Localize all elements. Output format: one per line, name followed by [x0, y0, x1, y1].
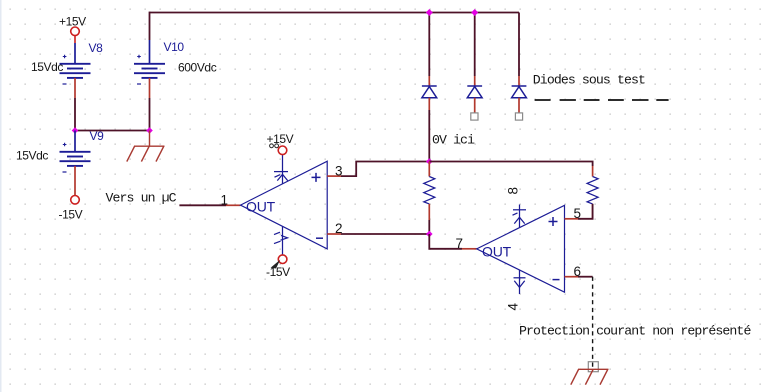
pin - of V10	[149, 78, 151, 98]
wire V10 minus to node B	[149, 98, 151, 131]
junction node A (75,130.5)	[72, 127, 79, 134]
plus mark of V10	[137, 55, 141, 59]
pin 6 stub of U2	[565, 276, 579, 278]
svg-text:6: 6	[574, 264, 582, 279]
svg-text:15Vdc: 15Vdc	[31, 60, 63, 74]
wire pin 5 to R2 bottom	[578, 204, 593, 219]
op-amp U1 V- power pin	[274, 226, 288, 255]
svg-text:OUT: OUT	[482, 244, 512, 260]
pin - of V8	[74, 78, 76, 98]
plates of V10	[134, 63, 165, 65]
plates of V8	[60, 63, 91, 65]
battery V8	[31, 41, 103, 98]
resistor R2	[587, 166, 598, 219]
wire pin 3 to node E	[341, 162, 429, 177]
power symbol +15V (at U1)	[267, 132, 294, 155]
op-amp U2 V+ power pin 8	[513, 205, 527, 228]
wire node F to pin 7 of U2	[429, 234, 462, 249]
junction node B (149.5,130.5)	[146, 127, 153, 134]
pin 2 stub of U1	[327, 233, 341, 235]
pin - of V9	[74, 166, 76, 196]
pin 5 stub of U2	[565, 218, 579, 220]
wire top bus to diode D1	[428, 13, 430, 77]
wire node A to node B horizontal	[75, 130, 150, 132]
power symbol -15V (bottom left)	[59, 196, 83, 222]
svg-text:600Vdc: 600Vdc	[178, 61, 217, 75]
minus input mark of U1	[316, 237, 323, 239]
pin 3 stub of U1	[327, 175, 341, 177]
power symbol +15V (top left)	[59, 15, 86, 43]
wire R1 bottom to node F	[428, 220, 430, 234]
svg-text:OUT: OUT	[246, 199, 276, 215]
pin 1 stub of U1	[226, 204, 241, 206]
svg-text:V8: V8	[89, 41, 104, 55]
pin + of V10	[149, 40, 151, 64]
wire pin 6 corner	[578, 276, 593, 278]
plus mark of V9	[63, 143, 67, 147]
svg-text:+15V: +15V	[59, 15, 86, 29]
diode D3 (cathode up)	[512, 76, 527, 113]
svg-text:-15V: -15V	[266, 265, 290, 279]
svg-text:15Vdc: 15Vdc	[16, 149, 48, 163]
junction node D (474.7,12.5)	[471, 9, 478, 16]
svg-text:7: 7	[456, 236, 464, 251]
svg-text:0V ici: 0V ici	[432, 133, 475, 148]
svg-text:V10: V10	[164, 40, 185, 54]
pin 7 stub of U2	[462, 248, 477, 250]
dashed separator line under Diodes sous test	[535, 99, 669, 101]
junction node C (429,12.5)	[426, 9, 433, 16]
battery V9	[16, 129, 104, 196]
svg-text:4: 4	[506, 303, 521, 311]
svg-text:8: 8	[506, 187, 521, 195]
minus mark of V10	[137, 83, 141, 85]
op-amp U1 (output on left apex)	[241, 161, 328, 249]
battery V10	[134, 40, 217, 98]
svg-text:Diodes sous test: Diodes sous test	[533, 73, 645, 88]
minus mark of V9	[63, 171, 67, 173]
wire D1 anode to node E	[428, 110, 430, 162]
unconnected pin square at D2 anode	[471, 113, 478, 120]
junction node E (429,161.5)	[426, 158, 433, 165]
diode D1 (cathode up)	[422, 76, 437, 110]
svg-text:Protection courant non représe: Protection courant non représenté	[519, 324, 751, 339]
plus input mark of U2	[549, 217, 558, 226]
pin + of V9	[74, 131, 76, 152]
minus mark of V8	[63, 83, 67, 85]
wire top bus (V10 plus terminal to diodes D1 D2 D3)	[150, 12, 520, 14]
minus input mark of U2	[553, 279, 560, 281]
wire node E to R2 top	[429, 162, 592, 167]
pin + of V8	[74, 43, 76, 64]
svg-text:-15V: -15V	[59, 208, 83, 222]
unconnected pin square at D3 anode	[515, 113, 522, 120]
wire V8 minus to node A	[74, 98, 76, 131]
plates of V9	[60, 151, 91, 153]
wire top bus to diode D2	[474, 13, 476, 77]
svg-text:V9: V9	[90, 129, 105, 143]
plus input mark of U1	[312, 173, 321, 182]
svg-text:5: 5	[574, 206, 582, 221]
dashed wire pin 6 down to ground G2	[592, 277, 594, 369]
junction node F (429,234)	[426, 231, 433, 238]
svg-text:Vers un µC: Vers un µC	[106, 191, 177, 206]
op-amp U1 V+ power pin	[274, 155, 288, 184]
svg-text:2: 2	[335, 221, 343, 236]
wire Vers un uC to pin 1 of U1	[179, 204, 226, 206]
diode D2 (cathode up)	[467, 76, 482, 113]
wire pin 2 to node F	[341, 233, 429, 235]
resistor R1	[424, 162, 435, 221]
svg-text:3: 3	[335, 163, 343, 178]
power symbol -15V (at U1)	[266, 255, 290, 279]
wire top bus corner to diode D3	[518, 13, 520, 77]
op-amp U2 (output on left apex)	[477, 205, 565, 292]
svg-text:1: 1	[221, 192, 229, 207]
plus mark of V8	[63, 55, 67, 59]
op-amp U2 V- power pin 4	[514, 270, 526, 294]
wire V10 top vertical	[149, 12, 151, 40]
ground symbol G2 (bottom right)	[571, 369, 609, 384]
unconnected pin square at ground G2	[588, 362, 598, 372]
ground symbol G1 (under node B)	[127, 131, 165, 162]
